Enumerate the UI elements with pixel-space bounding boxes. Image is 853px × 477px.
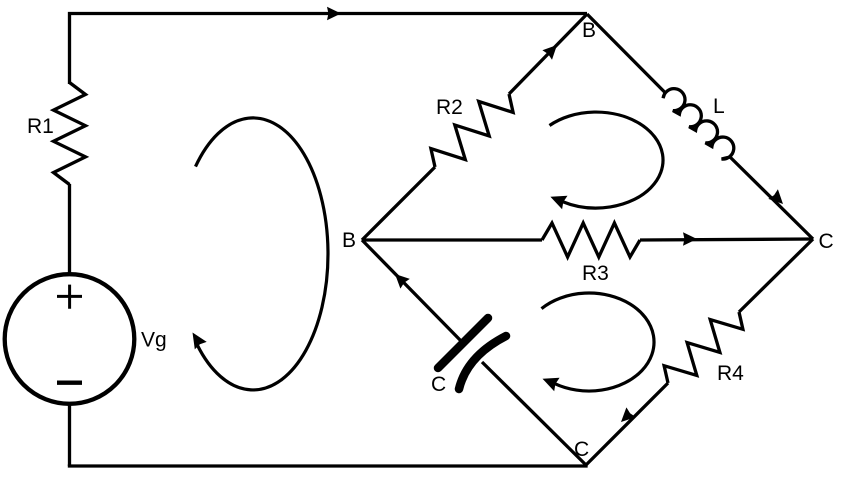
wire: capacitor to node C bottom: [482, 362, 586, 465]
arrowhead on R3 wire: [683, 232, 697, 246]
voltage source Vg circle: [5, 274, 135, 404]
arrowhead on L branch: [768, 189, 783, 204]
wire: bottom horizontal to node C bottom: [68, 464, 586, 466]
wire: node B left to R3: [362, 238, 542, 241]
arrowhead mesh 1: [193, 333, 207, 350]
svg-text:C: C: [574, 438, 589, 461]
wire: R1 bottom to source top: [68, 184, 71, 274]
svg-text:L: L: [713, 95, 725, 118]
wire: source bottom to bottom wire: [68, 403, 71, 466]
wire: R3 to node C right: [640, 239, 813, 240]
inductor L coil: [663, 89, 734, 159]
svg-text:C: C: [819, 230, 834, 253]
capacitor C plate 2 (curved): [459, 336, 506, 389]
wire: node B left to R2: [362, 167, 435, 240]
arrowhead mesh 3: [543, 378, 560, 391]
mesh current loop 1 (left, large ellipse): [196, 118, 328, 390]
arrowhead on top wire: [327, 7, 341, 21]
svg-text:B: B: [342, 229, 356, 252]
svg-text:Vg: Vg: [141, 329, 167, 352]
wire: inductor to node C right: [730, 157, 813, 239]
wire: node C right to R4: [739, 239, 813, 312]
svg-text:R3: R3: [582, 262, 609, 285]
resistor R1: [54, 83, 86, 185]
svg-text:C: C: [431, 373, 446, 396]
wire: R4 to node C bottom: [586, 383, 668, 465]
arrowhead mesh 2: [550, 196, 567, 209]
arrowhead on capacitor branch: [395, 274, 410, 289]
wire: top horizontal from top-left corner to node B top: [70, 14, 588, 85]
resistor R4: [664, 312, 743, 383]
minus sign inside source: [57, 381, 82, 385]
svg-text:R2: R2: [436, 96, 463, 119]
mesh current loop 3 (lower bridge): [542, 293, 655, 391]
arrowhead on R4 branch: [621, 407, 636, 422]
resistor R3: [542, 223, 640, 257]
resistor R2: [431, 94, 513, 167]
svg-text:R4: R4: [717, 362, 744, 385]
svg-text:R1: R1: [27, 115, 54, 138]
arrowhead on R2 branch: [542, 45, 557, 60]
mesh current loop 2 (upper bridge): [550, 112, 664, 208]
wire: R2 to node B top: [509, 14, 587, 94]
plus sign inside source: [57, 285, 82, 309]
wire: node B left to capacitor: [362, 240, 463, 343]
capacitor C plate 1 (straight): [438, 318, 488, 368]
wire: node B top to inductor: [587, 14, 665, 93]
